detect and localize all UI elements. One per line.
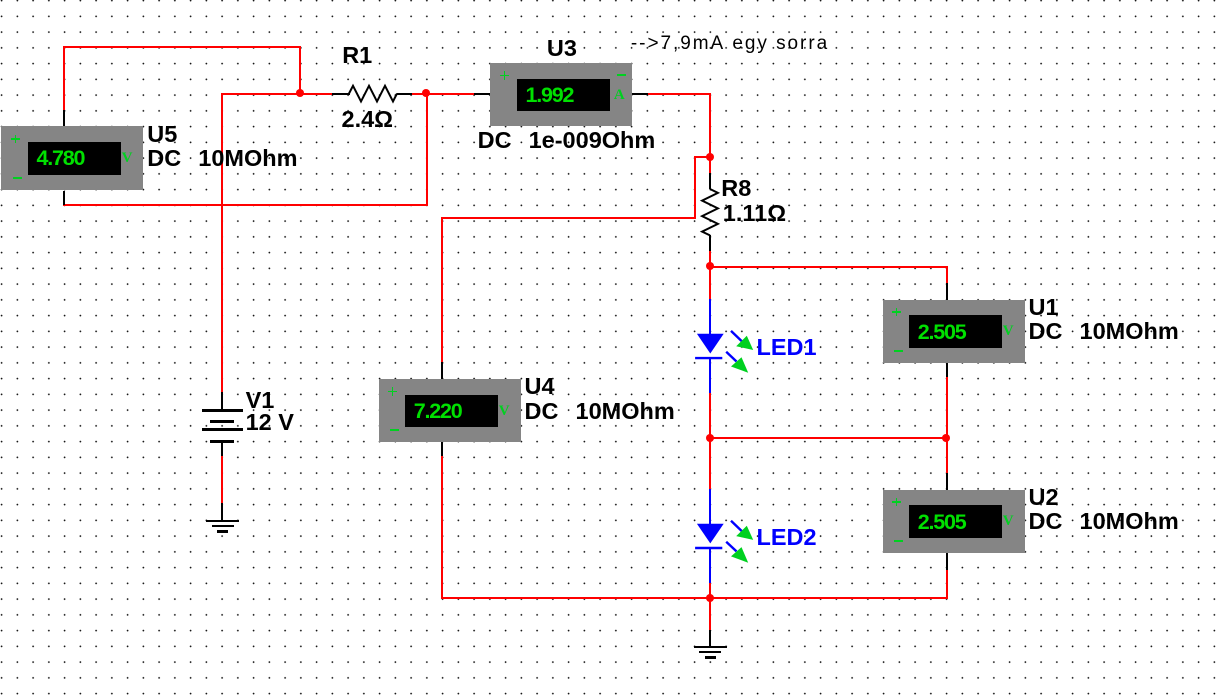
wire U5 top stub	[63, 110, 65, 126]
label U3 mode	[478, 129, 656, 153]
wire U2 bottom drop	[946, 569, 948, 598]
ground main ground	[709, 630, 711, 646]
meter U4 plus	[388, 391, 397, 393]
wire LED2 bottom wire	[709, 582, 711, 598]
wire U3 right run	[648, 93, 712, 95]
label U4 reading	[414, 401, 462, 423]
wire R8 top lead	[709, 173, 711, 189]
wire LED1 top wire	[709, 266, 711, 299]
LED LED1	[0, 0, 10, 10]
wire U3 right stub	[631, 93, 648, 95]
label U5 mode	[147, 147, 297, 171]
label R8 name	[721, 177, 751, 201]
label U4 unit V	[499, 404, 510, 419]
meter U3 minus	[617, 74, 626, 76]
wire drop to R1 left node	[299, 46, 301, 94]
wire bottom bus	[441, 597, 947, 599]
wire riser to R8 top node	[694, 156, 696, 219]
label R8 value	[723, 202, 786, 226]
wire R1 right lead	[397, 93, 412, 95]
meter U1 box	[883, 300, 1025, 364]
label V1 name	[246, 389, 275, 413]
label LED1 name	[757, 336, 817, 360]
wire U1 bottom drop	[946, 377, 948, 440]
label U5 reading	[37, 148, 85, 170]
LED LED2	[0, 0, 10, 10]
wire U2 top drop	[946, 437, 948, 473]
junction R1 right node	[422, 89, 430, 97]
label R1 value	[342, 108, 394, 132]
wire U5 bottom run	[63, 204, 427, 206]
meter U3 plus	[500, 75, 509, 77]
label U1 unit V	[1003, 324, 1014, 339]
label U2 reading	[918, 512, 966, 534]
wire R8 bottom lead	[709, 235, 711, 251]
wire U5 bottom stub	[63, 191, 65, 205]
label U1 mode	[1029, 320, 1179, 344]
wire R8 bottom wire	[709, 251, 711, 267]
wire R1 left lead	[332, 93, 350, 95]
label R1 name	[342, 44, 372, 68]
wire V1 ground stub	[221, 503, 223, 520]
wire to U3 left	[426, 93, 475, 95]
meter U1 plus	[892, 311, 901, 313]
meter U2 display	[909, 505, 1002, 538]
meter U5 minus	[13, 177, 22, 179]
meter U3 display	[517, 79, 610, 112]
wire V1 top stub	[221, 392, 223, 410]
wire drop to R8 node	[709, 93, 711, 158]
meter U5 display	[28, 142, 121, 175]
label U5 unit V	[122, 151, 133, 166]
resistor R1 zigzag	[0, 0, 10, 10]
wire LED1 bottom wire	[709, 392, 711, 439]
wire U2 bottom stub	[946, 553, 948, 570]
label U3 reading	[526, 85, 574, 107]
wire R1 right drop	[426, 93, 428, 206]
wire U2 top stub	[946, 473, 948, 490]
meter U5 box	[1, 126, 143, 190]
wire U5 top riser	[63, 46, 65, 111]
junction R1 left node	[296, 89, 304, 97]
meter U2 minus	[894, 540, 903, 542]
label LED2 name	[757, 526, 817, 550]
label U1 reading	[918, 322, 966, 344]
wire U4 top riser	[441, 217, 443, 363]
wire R8 top wire	[709, 156, 711, 173]
wire U4 top stub	[441, 362, 443, 379]
wire U1 bottom stub	[946, 363, 948, 377]
wire V1 bottom stub	[221, 440, 223, 456]
meter U3 box	[490, 63, 632, 127]
battery V1	[202, 409, 243, 412]
wire node to battery branch	[221, 93, 302, 95]
meter U4 minus	[390, 429, 399, 431]
wire R8 node to U1	[709, 266, 947, 268]
label U3 name	[547, 37, 577, 61]
junction R8 bottom node	[706, 262, 714, 270]
label V1 value	[246, 411, 294, 435]
wire U4 bottom stub	[441, 440, 443, 456]
wire LED2 cathode lead	[709, 547, 711, 582]
label U3 unit A	[614, 88, 625, 103]
wire top bus	[63, 46, 301, 48]
wire R1 right wire	[411, 93, 428, 95]
resistor R8 zigzag	[0, 0, 10, 10]
wire ground feed	[709, 597, 711, 630]
ground battery ground	[206, 520, 239, 523]
wire U3 left stub	[474, 93, 491, 95]
meter U4 box	[379, 379, 521, 443]
wire V1 ground wire	[221, 456, 223, 504]
wire R1 left wire	[299, 93, 332, 95]
junction U1-U2 node	[942, 434, 950, 442]
junction R8 top node	[706, 153, 714, 161]
meter U5 plus	[11, 138, 20, 140]
wire into R8 top node	[694, 156, 712, 158]
wire LED2 top wire	[709, 437, 711, 489]
meter U2 box	[883, 490, 1025, 554]
wire U1 top drop	[946, 266, 948, 284]
wire U1 top stub	[946, 283, 948, 300]
label U4 mode	[525, 400, 675, 424]
label U2 name	[1029, 486, 1059, 510]
junction LED mid node	[706, 434, 714, 442]
wire LED1 cathode lead	[709, 358, 711, 393]
wire mid bus	[709, 437, 947, 439]
meter U2 plus	[892, 501, 901, 503]
wire LED2 anode lead	[709, 489, 711, 525]
label U5 name	[147, 123, 177, 147]
label U1 name	[1029, 296, 1059, 320]
label U2 unit V	[1003, 514, 1014, 529]
wire U4 bottom drop	[441, 455, 443, 599]
junction bottom node	[706, 594, 714, 602]
meter U4 display	[405, 395, 498, 428]
meter U1 minus	[894, 350, 903, 352]
meter U1 display	[909, 315, 1002, 348]
wire U4 top run	[441, 217, 695, 219]
label U2 mode	[1029, 510, 1179, 534]
label U4 name	[525, 375, 555, 399]
label annotation	[631, 34, 829, 53]
wire battery feed	[221, 93, 223, 392]
wire LED1 anode lead	[709, 299, 711, 335]
